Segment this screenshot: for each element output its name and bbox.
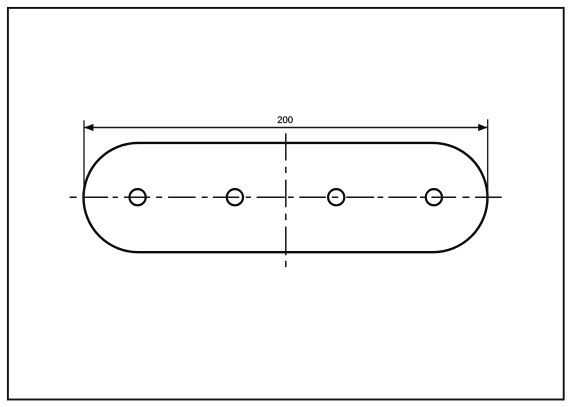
obround plate outline — [84, 143, 488, 252]
vertical centerline (dash-dot) — [285, 133, 287, 267]
right extension line — [487, 119, 489, 199]
dimension text 200 — [278, 116, 293, 123]
left dimension arrowhead — [84, 124, 93, 131]
hole 4 — [426, 189, 442, 205]
right dimension arrowhead — [478, 124, 487, 131]
hole 2 — [227, 189, 243, 205]
left extension line — [83, 120, 85, 199]
hole 3 — [328, 189, 344, 205]
dimension line 200 — [84, 127, 487, 129]
horizontal centerline (dash-dot) — [70, 196, 502, 198]
hole 1 — [130, 189, 146, 205]
